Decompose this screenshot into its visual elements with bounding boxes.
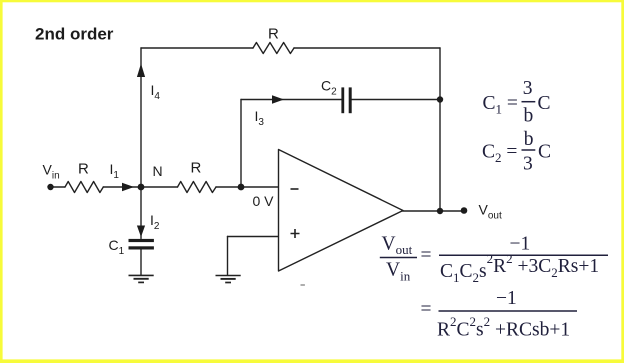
- wire: + input down to ground: [227, 237, 229, 276]
- wire: second resistor to op-amp inverting input: [216, 186, 279, 188]
- node N junction: [138, 184, 145, 191]
- wire: right vertical from feedback down to output node: [439, 48, 441, 211]
- wire: top feedback horizontal right segment: [294, 47, 440, 49]
- node: Vout terminal: [461, 207, 468, 214]
- svg-text:C: C: [538, 93, 551, 114]
- equation transfer function line 1: [380, 233, 608, 285]
- svg-text:=: =: [421, 299, 432, 320]
- resistor R (second, N to op-amp): [178, 182, 217, 193]
- arrow I3 (right): [272, 95, 284, 104]
- node: Vin input terminal: [47, 184, 53, 190]
- wire: I2 branch from node N down to C1: [140, 187, 142, 239]
- wire: op-amp + input horizontal: [228, 236, 279, 238]
- ground (below + input): [216, 276, 241, 283]
- svg-text:R: R: [78, 161, 89, 178]
- svg-text:3: 3: [523, 154, 533, 175]
- wire: C2 branch vertical from inverting node up: [240, 100, 242, 188]
- arrow I1: [122, 183, 134, 192]
- op-amp inverting pin "-": [291, 188, 299, 190]
- wire: op-amp output to Vout terminal: [403, 210, 464, 212]
- fraction bar: [439, 254, 608, 256]
- node: output junction: [437, 208, 443, 214]
- svg-text:=: =: [421, 245, 432, 266]
- svg-text:N: N: [153, 163, 163, 179]
- capacitor C1 plates: [129, 239, 154, 250]
- svg-text:C: C: [538, 142, 551, 163]
- svg-text:R: R: [268, 26, 279, 43]
- equation C2 = b/3 C: [482, 129, 551, 175]
- capacitor C2 plates: [341, 87, 351, 113]
- ground (below C1): [129, 275, 154, 282]
- wire: top feedback horizontal left segment: [141, 47, 253, 49]
- op-amp U1: [279, 150, 404, 272]
- resistor R (input): [65, 182, 103, 193]
- op-amp non-inverting pin "+": [291, 229, 300, 238]
- resistor R (top feedback): [253, 43, 294, 54]
- svg-text:3: 3: [523, 78, 533, 99]
- svg-text:0 V: 0 V: [253, 193, 275, 209]
- svg-text:R: R: [191, 160, 202, 177]
- wire: input from Vin terminal to resistor: [50, 186, 65, 188]
- node: inverting-input junction: [238, 184, 245, 191]
- arrow I4 (up): [137, 64, 145, 78]
- arrow I2 (down): [137, 226, 145, 238]
- equation transfer function line 2: [421, 288, 578, 341]
- svg-text:C1 =: C1 =: [483, 93, 523, 117]
- wire: C1 lower plate to ground: [140, 249, 142, 275]
- wire: C2 branch horizontal right of C2: [352, 99, 440, 101]
- wire: left vertical from node N up to feedback: [140, 48, 142, 187]
- stray scan speck: [301, 284, 305, 286]
- svg-text:C2 =: C2 =: [482, 142, 522, 166]
- svg-text:b: b: [524, 129, 534, 150]
- svg-text:−1: −1: [496, 288, 517, 309]
- wire: input resistor to node N: [103, 186, 141, 188]
- wire: node N to second resistor: [141, 186, 178, 188]
- equation C1 = 3/b C: [483, 78, 551, 127]
- node: C2/R feedback junction: [437, 96, 443, 102]
- svg-text:b: b: [524, 106, 534, 127]
- wire: C2 branch horizontal left of C2: [241, 99, 342, 101]
- svg-text:2nd order: 2nd order: [35, 25, 114, 44]
